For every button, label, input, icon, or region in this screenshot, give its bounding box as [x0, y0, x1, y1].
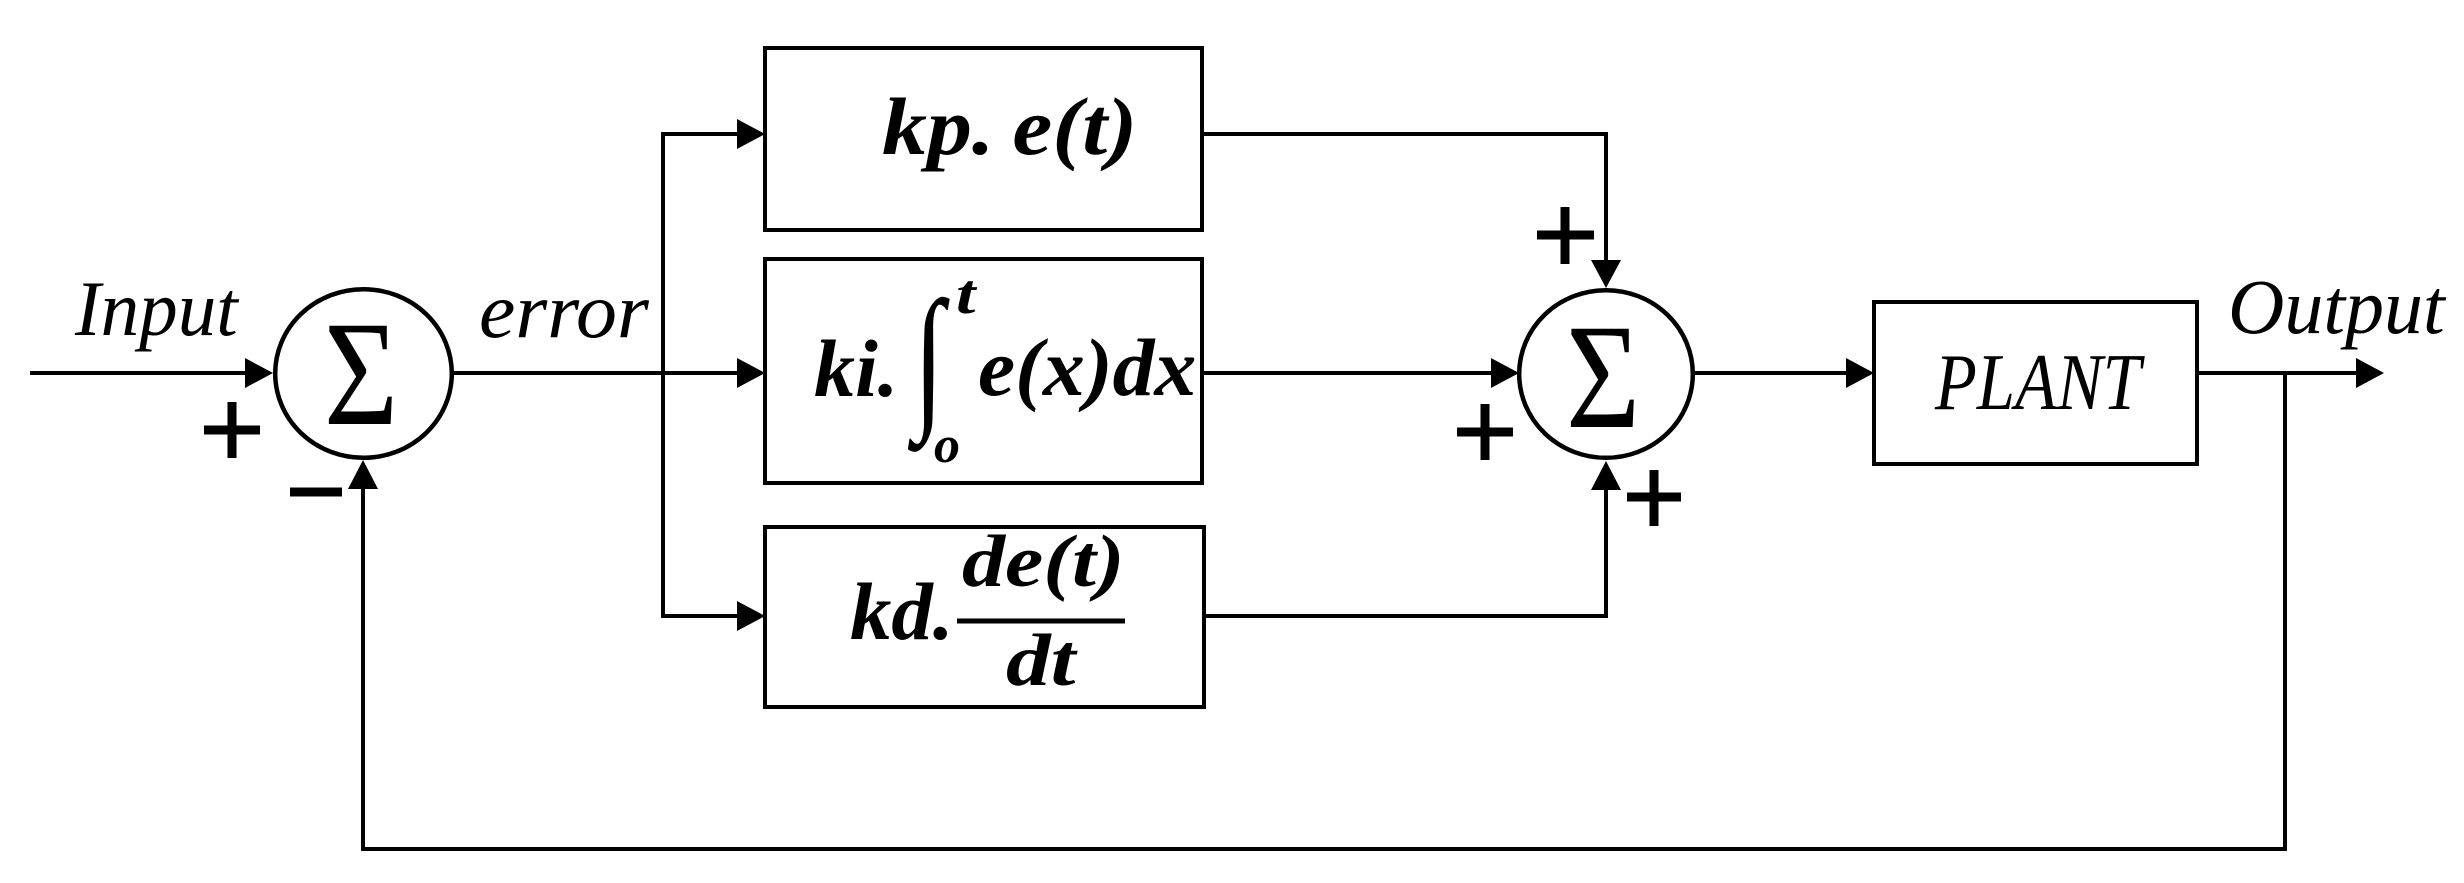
svg-text:de(t): de(t) — [962, 521, 1125, 603]
arrowhead into S2 bottom — [1591, 461, 1621, 490]
block PLANT — [1874, 302, 2197, 464]
arrowhead output — [2356, 358, 2384, 388]
block KI integral — [765, 259, 1202, 483]
plus sign at S2 left input — [1457, 404, 1513, 460]
wire: PLANT to output — [2197, 371, 2357, 375]
fraction bar — [957, 619, 1125, 624]
summing junction S2 — [1519, 290, 1693, 458]
svg-text:Input: Input — [74, 266, 240, 353]
svg-text:PLANT: PLANT — [1934, 339, 2145, 427]
block KP proportional — [765, 48, 1202, 230]
svg-text:kp. e(t): kp. e(t) — [882, 81, 1137, 172]
svg-text:t: t — [956, 264, 978, 326]
svg-text:e(x)dx: e(x)dx — [978, 322, 1196, 413]
svg-text:Σ: Σ — [1566, 295, 1640, 461]
minus sign at S1 feedback input — [290, 488, 342, 497]
svg-text:ki.: ki. — [814, 323, 898, 414]
svg-text:error: error — [479, 269, 650, 355]
wire: input line — [30, 371, 248, 375]
svg-text:o: o — [934, 417, 960, 474]
wire: feedback loop from output junction to S1 bottom — [363, 373, 2285, 849]
arrowhead into S2 top — [1591, 260, 1621, 288]
plus sign at S1 plus input — [204, 402, 260, 458]
arrowhead into PLANT — [1846, 358, 1874, 388]
arrowhead into block KD — [737, 601, 765, 631]
wire: error line from S1 to integral block — [452, 371, 740, 375]
arrowhead into summing junction S1 — [245, 358, 273, 388]
wire: branch vertical with bottom branch to block KD — [663, 371, 740, 616]
svg-text:Σ: Σ — [324, 292, 398, 458]
wire: S2 to PLANT — [1694, 371, 1847, 375]
svg-text:kd.: kd. — [850, 566, 954, 657]
arrowhead into S2 left — [1491, 358, 1519, 388]
summing junction S1 — [275, 289, 452, 458]
plus sign at S2 bottom input — [1627, 470, 1681, 526]
wire: branch vertical with top branch to block KP — [663, 134, 740, 375]
arrowhead into block KI — [737, 358, 765, 388]
wire: KP output to S2 top — [1202, 134, 1606, 261]
arrowhead into S1 bottom — [348, 460, 378, 489]
plus sign at S2 top input — [1537, 207, 1594, 264]
wire: KD output to S2 bottom — [1204, 489, 1606, 616]
svg-text:dt: dt — [1006, 619, 1078, 701]
block KD derivative — [765, 527, 1204, 707]
wire: KI output to S2 left — [1202, 371, 1491, 375]
svg-text:Output: Output — [2228, 263, 2447, 350]
arrowhead into block KP — [737, 119, 765, 149]
